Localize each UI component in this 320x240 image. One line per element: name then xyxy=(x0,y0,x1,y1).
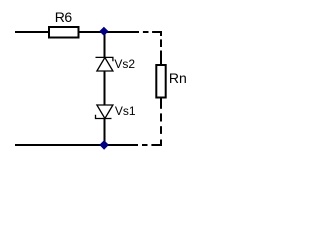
wire dashed bottom-right xyxy=(142,113,161,145)
zener diode Vs1 xyxy=(96,105,113,119)
svg-text:Vs1: Vs1 xyxy=(115,104,136,118)
wire node A down to Vs2 xyxy=(104,32,106,57)
wire pin above Rn xyxy=(160,51,162,66)
wire node B right stub xyxy=(105,144,139,146)
wire pin below Rn xyxy=(160,98,162,109)
wire bottom-left xyxy=(15,144,105,146)
svg-text:Rn: Rn xyxy=(169,70,187,86)
node B xyxy=(100,141,109,150)
wire Vs2 to Vs1 xyxy=(104,71,106,105)
wire Vs1 to node B xyxy=(104,119,106,146)
wire top-left xyxy=(15,31,49,33)
wire dashed top-right xyxy=(143,32,161,47)
svg-text:R6: R6 xyxy=(55,9,73,25)
zener diode Vs2 xyxy=(96,57,113,71)
resistor Rn xyxy=(156,65,165,98)
resistor R6 xyxy=(49,27,79,38)
wire node A right stub xyxy=(105,31,140,33)
wire R6 to node A xyxy=(79,31,105,33)
node A xyxy=(100,27,108,35)
svg-text:Vs2: Vs2 xyxy=(114,57,135,71)
